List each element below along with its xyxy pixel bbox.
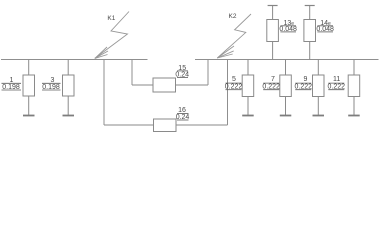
terminal R3 [63,115,75,117]
resistor R14 (source branch up) [304,6,316,60]
terminal R1 [23,115,35,117]
resistor R9 [313,60,325,116]
label R9 value 0.222 [295,83,313,91]
wire: riser from R15 branch to right bus [207,60,209,86]
wire: drop from left bus to R16 branch [103,60,105,126]
label R5 value 0.222 [225,83,243,91]
resistor R13 (source branch up) [267,6,279,60]
wire: riser from R16 branch to right bus [227,60,229,126]
resistor R16 [104,119,228,132]
terminal R9 [313,115,325,117]
label R11 value 0.222 [328,83,346,91]
svg-text:11: 11 [333,76,340,83]
wire: drop from left bus to R15 branch [131,60,133,86]
label R7 value 0.222 [262,83,280,91]
lightning arrow K1 [95,12,129,59]
label R14 value 0.048 [316,26,334,33]
lightning arrow K2 [217,14,251,58]
label R15 value 0.24 [175,71,189,79]
svg-text:K1: K1 [107,15,115,22]
terminal R11 [348,115,360,117]
terminal R13 [268,5,278,7]
wire: left bus segment [1,59,148,61]
svg-text:7: 7 [271,76,275,83]
label R3 value 0.198 [42,83,61,91]
resistor R3 [63,60,75,116]
resistor R7 [280,60,292,116]
wire: right bus segment [195,59,379,61]
svg-text:5: 5 [232,76,236,83]
label R1 value 0.198 [2,83,22,91]
resistor R11 [348,60,360,116]
resistor R1 [23,60,35,116]
label R13 value 0.048 [279,26,297,33]
svg-text:9: 9 [304,76,308,83]
svg-text:K2: K2 [229,13,237,20]
resistor R15 [132,78,208,92]
terminal R14 [305,5,315,7]
label R16 value 0.24 [176,113,190,121]
resistor R5 [242,60,254,116]
terminal R7 [280,115,292,117]
terminal R5 [242,115,254,117]
